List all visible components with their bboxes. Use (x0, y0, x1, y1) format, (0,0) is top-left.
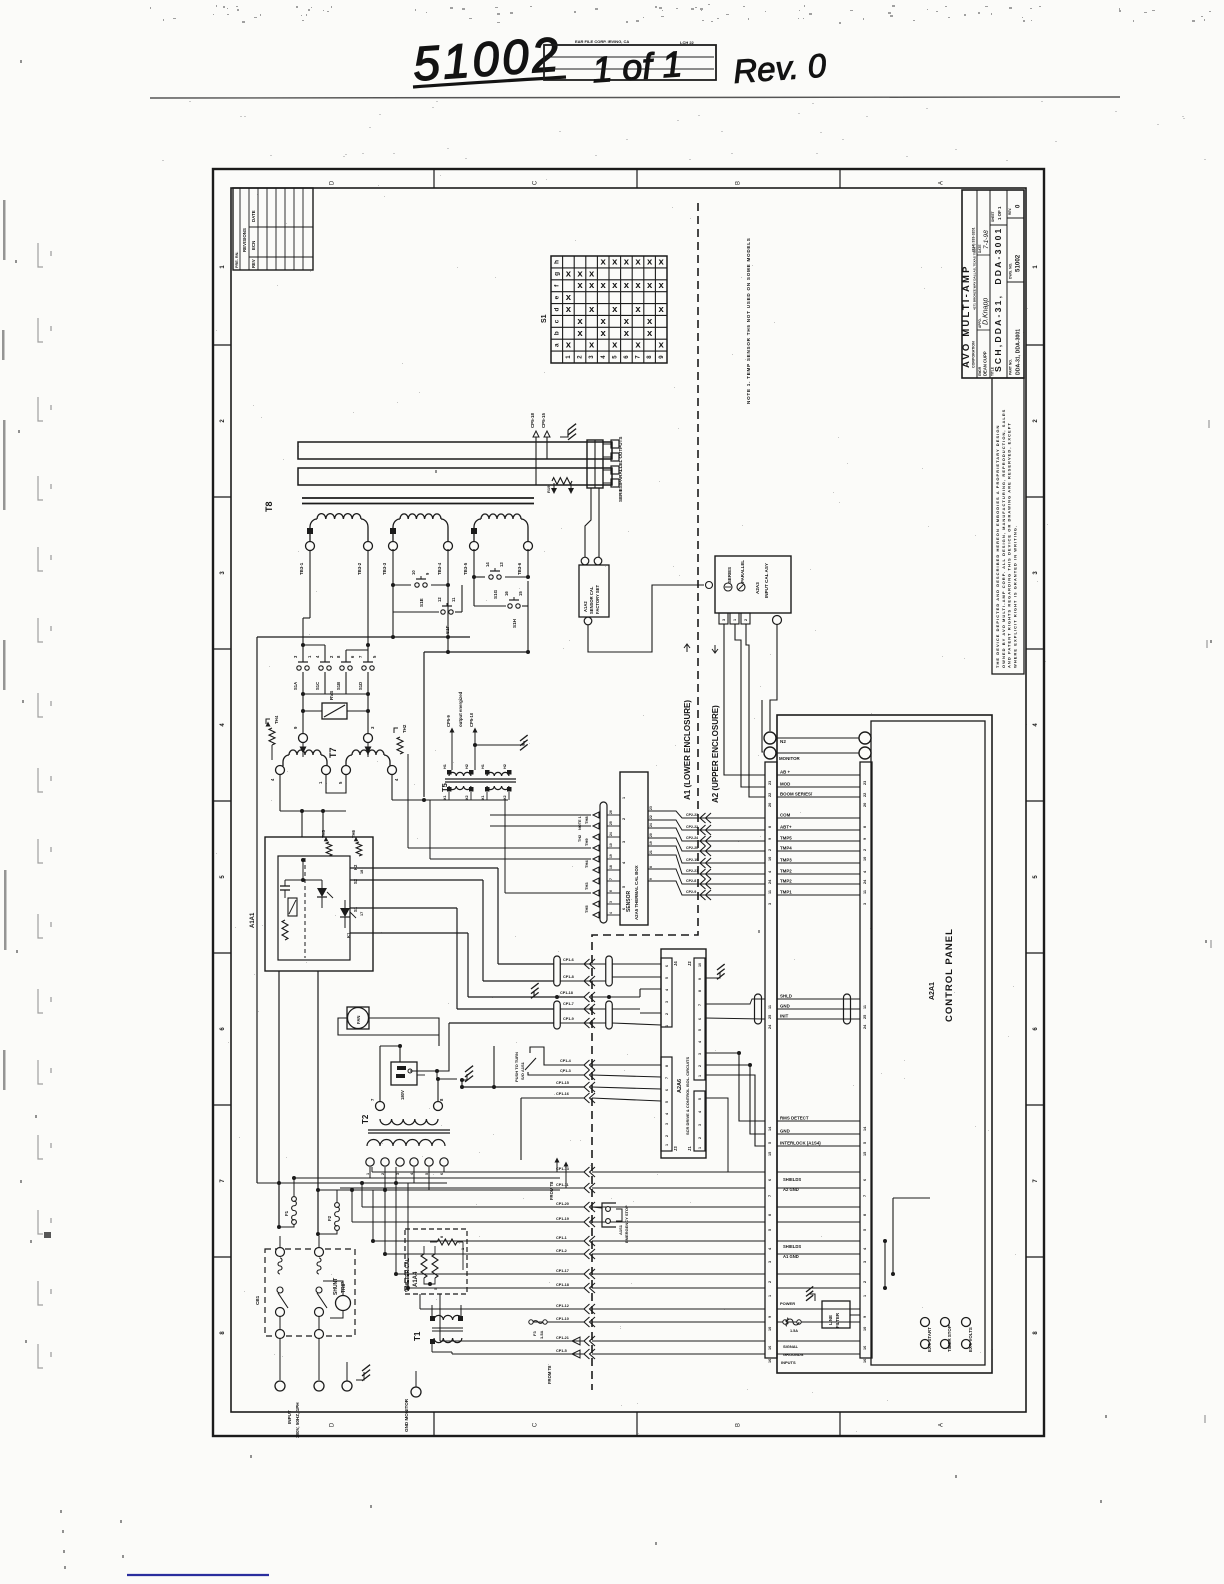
svg-text:3: 3 (396, 1173, 400, 1175)
svg-text:4: 4 (698, 1041, 702, 1043)
shunt trip coil (323, 1278, 351, 1318)
svg-text:x: x (647, 328, 653, 339)
gnd monitor terminal (404, 1371, 430, 1432)
svg-text:AB +: AB + (780, 770, 791, 775)
svg-text:16: 16 (768, 1346, 772, 1350)
svg-text:x: x (589, 280, 595, 291)
svg-text:11: 11 (863, 1005, 867, 1009)
svg-text:2: 2 (381, 1173, 385, 1175)
wire T5 secondary bus (392, 792, 509, 802)
svg-text:24: 24 (649, 823, 653, 827)
svg-text:A1A1: A1A1 (250, 912, 256, 928)
svg-text:APPD.: APPD. (978, 318, 982, 328)
svg-text:7: 7 (768, 1195, 772, 1197)
svg-text:10: 10 (609, 843, 613, 847)
svg-text:SERIES/PARALLEL OUTPUTS: SERIES/PARALLEL OUTPUTS (618, 437, 623, 502)
title block engineer / approval / date (978, 230, 990, 376)
svg-text:9: 9 (863, 838, 867, 840)
wires T2 secondary to bus (370, 1167, 444, 1192)
svg-text:B: B (736, 181, 742, 185)
scan margin artifacts (38, 243, 1212, 1423)
svg-text:2: 2 (665, 1135, 669, 1137)
svg-text:DEAN CUPP: DEAN CUPP (983, 351, 988, 376)
svg-text:7: 7 (863, 1195, 867, 1197)
svg-text:4: 4 (698, 1111, 702, 1113)
svg-text:S1D: S1D (358, 682, 363, 690)
svg-text:1: 1 (733, 619, 737, 621)
svg-text:5: 5 (768, 1229, 772, 1231)
fuse F3 (510, 1320, 547, 1339)
title block company name AVO MULTI-AMP (961, 227, 977, 368)
svg-text:INTERLOCK (A1S4): INTERLOCK (A1S4) (780, 1141, 821, 1146)
svg-text:X2: X2 (503, 795, 507, 800)
svg-text:14: 14 (485, 562, 490, 567)
svg-text:x: x (589, 304, 595, 315)
transformer T2 (361, 1046, 450, 1175)
resistor R19 (546, 478, 574, 494)
svg-text:INPUT CAL ASY: INPUT CAL ASY (764, 563, 769, 598)
svg-text:PART NO.: PART NO. (1009, 359, 1013, 375)
svg-text:REVISIONS: REVISIONS (242, 228, 247, 252)
svg-text:INPUT: INPUT (287, 1410, 292, 1424)
svg-text:A: A (939, 181, 945, 185)
switch S1B (340, 666, 344, 670)
svg-text:A2A1: A2A1 (929, 982, 936, 1000)
svg-text:A1A2: A1A2 (583, 601, 588, 612)
svg-text:CP2-21: CP2-21 (686, 869, 698, 873)
thyristor S2 (317, 880, 333, 908)
svg-text:4: 4 (609, 912, 613, 914)
transformer T8 winding group 3 (463, 514, 533, 575)
svg-text:CP5-9: CP5-9 (446, 714, 451, 727)
transformer T1 (413, 1305, 463, 1352)
svg-text:9: 9 (863, 1316, 867, 1318)
wire CP5-18 tap (530, 413, 539, 485)
svg-text:8: 8 (768, 1214, 772, 1216)
svg-text:x: x (659, 256, 665, 267)
svg-text:TB3-1: TB3-1 (299, 562, 304, 575)
connector J3 (661, 1057, 678, 1151)
output bus lines (302, 498, 534, 504)
svg-text:CP5-18: CP5-18 (530, 413, 535, 428)
svg-text:x: x (635, 304, 641, 315)
svg-text:SENSOR: SENSOR (626, 890, 632, 912)
wire TB3-1 drop (301, 551, 370, 662)
svg-text:CP1-16: CP1-16 (556, 1092, 569, 1096)
svg-text:A: A (939, 1423, 945, 1427)
svg-text:EXT. START: EXT. START (927, 1327, 932, 1352)
title block sheet cell (991, 206, 1002, 222)
switch S1A (297, 666, 301, 670)
svg-text:S2: S2 (353, 878, 358, 884)
svg-text:CP1-18: CP1-18 (556, 1283, 569, 1287)
svg-text:2: 2 (863, 1281, 867, 1283)
input terminals (275, 1362, 352, 1438)
svg-text:15: 15 (518, 591, 523, 596)
svg-text:J3: J3 (673, 1146, 678, 1151)
svg-text:F1: F1 (284, 1210, 289, 1216)
svg-text:RVS: RVS (329, 691, 334, 700)
svg-text:20: 20 (649, 833, 653, 837)
svg-text:J2: J2 (687, 961, 692, 966)
svg-text:NOTE 1. TEMP SENSOR TH5 NOT U: NOTE 1. TEMP SENSOR TH5 NOT USED ON SOME… (746, 237, 751, 404)
svg-text:EMERGENCY STOP: EMERGENCY STOP (624, 1205, 629, 1243)
svg-text:SHIELDS: SHIELDS (783, 1177, 801, 1182)
svg-text:FROM T8: FROM T8 (547, 1365, 552, 1384)
svg-text:INIT: INIT (780, 1014, 789, 1019)
svg-text:SHEET: SHEET (991, 211, 995, 222)
control panel A2A1 outer box (777, 715, 992, 1373)
svg-text:FILTER: FILTER (835, 1312, 840, 1328)
svg-text:CP1-8: CP1-8 (563, 975, 574, 979)
module A2A3 input cal asy (706, 556, 792, 625)
svg-text:13: 13 (499, 562, 504, 567)
wires fan loop (338, 1018, 439, 1046)
terminal MONITOR (764, 747, 871, 761)
svg-text:TB3-6: TB3-6 (517, 562, 522, 575)
wire CP1-9 (437, 1017, 661, 1071)
svg-text:22: 22 (649, 815, 653, 819)
svg-text:CB1: CB1 (255, 1295, 260, 1305)
switch S1C (319, 666, 323, 670)
svg-text:7-1-98: 7-1-98 (983, 230, 990, 249)
capacitor C1 in A1A1 (280, 880, 290, 898)
ferrite capsules on CP1 rows (554, 956, 613, 1029)
svg-text:5: 5 (768, 1142, 772, 1144)
svg-text:g: g (554, 272, 561, 276)
title block dwg no 51002 (1009, 254, 1022, 279)
wire T7 bottom bus (280, 809, 346, 837)
wire CP1-15 (462, 1081, 661, 1092)
svg-text:INPUTS: INPUTS (781, 1360, 796, 1365)
bus wire y652 (424, 637, 530, 797)
svg-text:EXT. VOLTS: EXT. VOLTS (968, 1327, 973, 1352)
svg-text:NOTE 1: NOTE 1 (578, 816, 582, 830)
svg-text:PARALLEL: PARALLEL (740, 560, 745, 583)
svg-text:THE DEVICE DEPICTED AND DESCRI: THE DEVICE DEPICTED AND DESCRIBED HEREON… (995, 425, 1000, 668)
svg-text:SERIES: SERIES (727, 567, 732, 583)
svg-text:CONTROL PANEL: CONTROL PANEL (944, 928, 955, 1022)
outer border frame (213, 169, 1044, 1436)
svg-text:x: x (612, 256, 618, 267)
meter cal module A1A4 (405, 1229, 467, 1294)
panel pin rows (768, 770, 867, 1157)
svg-text:1: 1 (622, 797, 626, 799)
svg-text:10: 10 (698, 963, 702, 967)
svg-text:x: x (635, 340, 641, 351)
wire S1 to CP1-7 (350, 908, 457, 1009)
svg-text:CP1-13: CP1-13 (556, 1167, 569, 1171)
svg-text:8: 8 (768, 826, 772, 828)
external terminals TIMER STOP (941, 1318, 953, 1353)
svg-text:16: 16 (504, 591, 509, 596)
svg-text:X2: X2 (465, 795, 469, 800)
wires sensors to A2A5 left (272, 745, 591, 893)
wire left feeders (257, 971, 560, 1234)
svg-text:H1: H1 (443, 764, 447, 769)
svg-text:TB3-4: TB3-4 (437, 562, 442, 575)
svg-text:T1: T1 (413, 1331, 422, 1341)
wire K1 to CP1-18 (350, 933, 584, 997)
svg-text:A1A4: A1A4 (413, 1271, 419, 1287)
svg-text:CP1-15: CP1-15 (556, 1081, 569, 1085)
svg-text:11: 11 (451, 597, 456, 602)
svg-text:FACTORY SET: FACTORY SET (595, 585, 600, 614)
header rule line (150, 97, 1120, 98)
svg-text:3: 3 (698, 1124, 702, 1126)
svg-text:x: x (566, 340, 572, 351)
svg-text:K2: K2 (353, 864, 358, 870)
svg-text:4271 BRONZE WAY DALLAS, TEXAS: 4271 BRONZE WAY DALLAS, TEXAS 75237 (973, 246, 977, 310)
transformer T8 winding group 1 (299, 514, 373, 575)
svg-text:2: 2 (698, 1065, 702, 1067)
svg-text:CP1-9: CP1-9 (563, 1017, 574, 1021)
module A1A1 box (250, 837, 373, 971)
switch S1G (489, 575, 493, 579)
svg-text:2: 2 (863, 849, 867, 851)
svg-text:15: 15 (863, 1152, 867, 1156)
svg-text:CP1-21: CP1-21 (556, 1336, 569, 1340)
svg-text:1.5A: 1.5A (790, 1329, 798, 1333)
label A2 upper enclosure (711, 645, 720, 803)
svg-text:16: 16 (863, 1346, 867, 1350)
svg-text:6: 6 (609, 890, 613, 892)
svg-text:DDA-31, DDA-3001: DDA-31, DDA-3001 (1016, 329, 1022, 375)
svg-text:x: x (635, 256, 641, 267)
control panel inner box (871, 721, 985, 1365)
svg-text:2: 2 (622, 818, 626, 820)
svg-text:8: 8 (863, 1214, 867, 1216)
transformer T5 (440, 764, 516, 800)
svg-text:15: 15 (768, 1152, 772, 1156)
svg-text:10: 10 (768, 1327, 772, 1331)
svg-text:3: 3 (768, 1261, 772, 1263)
svg-text:C: C (533, 180, 539, 185)
svg-text:8: 8 (440, 1236, 444, 1238)
svg-text:GND MONITOR: GND MONITOR (404, 1398, 409, 1432)
svg-text:S1: S1 (541, 314, 548, 323)
svg-text:1: 1 (863, 1295, 867, 1297)
svg-text:CP2-9: CP2-9 (686, 890, 696, 894)
svg-text:CP2-23: CP2-23 (686, 813, 698, 817)
from T8 arrows lower (547, 1337, 584, 1384)
sensor input triangles (578, 797, 626, 918)
svg-text:7: 7 (665, 1077, 669, 1079)
proprietary notice box (992, 378, 1024, 674)
svg-text:TMP3: TMP3 (780, 858, 792, 863)
svg-text:J1: J1 (687, 1146, 692, 1151)
svg-text:CP1-1: CP1-1 (556, 1236, 567, 1240)
zone ticks and designators (213, 169, 1044, 1436)
svg-text:REV: REV (251, 259, 256, 268)
svg-text:1 of 1: 1 of 1 (591, 43, 684, 90)
svg-text:8: 8 (649, 866, 653, 868)
svg-text:CP1-2: CP1-2 (556, 1249, 567, 1253)
svg-text:output energized: output energized (458, 691, 463, 727)
svg-text:ENGR: ENGR (978, 366, 982, 376)
fan motor (347, 1007, 369, 1029)
svg-text:TIMER STOP: TIMER STOP (947, 1325, 952, 1352)
svg-text:x: x (577, 268, 583, 279)
wire TB3-3 to S1E (391, 549, 450, 587)
svg-text:x: x (612, 340, 618, 351)
svg-text:2: 2 (665, 1013, 669, 1015)
svg-text:5: 5 (622, 886, 626, 888)
ground at J2 pin 9 (705, 964, 725, 979)
svg-text:CORPORATION: CORPORATION (972, 341, 976, 368)
svg-text:x: x (601, 280, 607, 291)
svg-text:TRIP: TRIP (341, 1281, 347, 1293)
svg-text:AVO MULTI-AMP: AVO MULTI-AMP (961, 264, 972, 368)
svg-text:DATE: DATE (978, 245, 982, 253)
svg-text:CP1-17: CP1-17 (556, 1269, 569, 1273)
svg-text:N2: N2 (780, 739, 786, 744)
ground near T2 (460, 1046, 496, 1089)
svg-text:6: 6 (698, 1018, 702, 1020)
svg-text:TH5: TH5 (584, 905, 589, 913)
wire risers to CP1 rows (340, 1167, 452, 1354)
svg-text:10: 10 (863, 857, 867, 861)
svg-text:10: 10 (863, 1327, 867, 1331)
svg-text:6: 6 (440, 1173, 444, 1175)
svg-text:CP2-24: CP2-24 (686, 836, 698, 840)
svg-text:6: 6 (863, 1179, 867, 1181)
wire CP5-10 (469, 712, 498, 770)
svg-text:x: x (624, 328, 630, 339)
varistor RVS (322, 691, 347, 719)
svg-text:x: x (601, 328, 607, 339)
svg-text:TH5: TH5 (321, 829, 326, 838)
thermal sensor TH5 (321, 829, 332, 856)
fuse F1 (277, 1178, 296, 1229)
switch S1D (362, 666, 366, 670)
svg-text:x: x (647, 280, 653, 291)
svg-text:22: 22 (768, 793, 772, 797)
svg-text:A1S1: A1S1 (618, 1224, 623, 1235)
svg-text:TH2: TH2 (402, 724, 407, 733)
svg-text:LINE: LINE (828, 1315, 833, 1325)
svg-text:5: 5 (665, 1101, 669, 1103)
svg-text:TH2: TH2 (578, 835, 582, 842)
svg-text:3: 3 (722, 619, 726, 621)
svg-text:POWER: POWER (780, 1301, 795, 1306)
svg-text:x: x (589, 268, 595, 279)
svg-text:x: x (647, 316, 653, 327)
svg-text:25: 25 (863, 1015, 867, 1019)
from T8 arrows upper (549, 1158, 569, 1201)
panel internal wires (872, 1198, 930, 1290)
svg-text:X1: X1 (481, 795, 485, 800)
svg-text:S/O A1S1: S/O A1S1 (520, 1061, 525, 1080)
svg-text:LCH 22: LCH 22 (680, 40, 695, 45)
svg-text:x: x (624, 316, 630, 327)
svg-text:x: x (601, 316, 607, 327)
svg-text:x: x (577, 328, 583, 339)
svg-text:2: 2 (744, 619, 748, 621)
svg-text:S1G: S1G (493, 589, 498, 599)
svg-text:10: 10 (768, 857, 772, 861)
svg-text:x: x (566, 292, 572, 303)
switch A1S1 push to turn (514, 1047, 661, 1082)
svg-text:MOD: MOD (780, 782, 790, 787)
connector J4 (661, 958, 678, 1027)
svg-text:PRE. RN.: PRE. RN. (235, 252, 239, 268)
relay K in A1A1 supply (380, 1044, 457, 1100)
svg-text:T2: T2 (361, 1114, 370, 1124)
svg-text:F2: F2 (327, 1215, 332, 1221)
svg-text:4: 4 (665, 989, 669, 991)
svg-text:2: 2 (698, 1137, 702, 1139)
svg-text:SCR DRIVE & CONTROL ISOL. CIRC: SCR DRIVE & CONTROL ISOL. CIRCUITS (685, 1057, 690, 1135)
svg-text:TB3-3: TB3-3 (382, 562, 387, 575)
svg-text:x: x (659, 304, 665, 315)
svg-text:380V, 50HZ, 1PH: 380V, 50HZ, 1PH (295, 1402, 300, 1438)
wire CP1-6 (560, 958, 661, 969)
title block (962, 190, 1024, 378)
svg-text:SIGNAL: SIGNAL (783, 1344, 799, 1349)
svg-text:5: 5 (425, 1173, 429, 1175)
svg-text:1: 1 (698, 1147, 702, 1149)
svg-text:x: x (624, 256, 630, 267)
wires CP1 rows to chevrons (340, 1167, 765, 1359)
varistor in A1A1 (288, 898, 297, 916)
svg-text:1.5A: 1.5A (539, 1330, 544, 1339)
svg-text:51002: 51002 (1015, 254, 1022, 272)
connector capsule at A2A5 (600, 802, 607, 923)
svg-text:TH6: TH6 (351, 829, 356, 838)
svg-text:1 OF 1: 1 OF 1 (997, 206, 1002, 220)
svg-text:7: 7 (698, 1004, 702, 1006)
wires A2A5 to control panel (648, 806, 765, 900)
svg-text:F3: F3 (532, 1331, 537, 1336)
wire CP1-18 (560, 989, 661, 1002)
svg-text:TH4: TH4 (584, 860, 589, 868)
svg-text:18: 18 (360, 870, 364, 874)
svg-text:3: 3 (698, 1053, 702, 1055)
svg-text:11: 11 (768, 890, 772, 894)
svg-text:x: x (659, 340, 665, 351)
ground at T5 (498, 735, 528, 750)
module A1A2 sensor cal (579, 488, 609, 625)
svg-text:TB3-2: TB3-2 (357, 562, 362, 575)
svg-text:CP1-12: CP1-12 (556, 1304, 569, 1308)
svg-text:OWNED BY AVO MULTI-AMP CORP. A: OWNED BY AVO MULTI-AMP CORP. ALL DESIGN,… (1001, 409, 1006, 668)
svg-text:9: 9 (698, 978, 702, 980)
wires J2 to panel (705, 999, 765, 1146)
svg-text:D: D (330, 1422, 336, 1427)
svg-text:2: 2 (768, 849, 772, 851)
svg-text:D.Knapp: D.Knapp (983, 298, 990, 325)
wire contacts to RVS row (301, 672, 370, 733)
thermal sensor TH6 (351, 829, 362, 856)
svg-text:X1: X1 (443, 795, 447, 800)
svg-text:CP2-19: CP2-19 (686, 858, 698, 862)
svg-text:CP1-11: CP1-11 (556, 1183, 569, 1187)
svg-text:WHERE EXPLICIT RIGHT IS GRANTE: WHERE EXPLICIT RIGHT IS GRANTED IN WRITI… (1012, 525, 1017, 668)
svg-text:S1B: S1B (336, 682, 341, 690)
svg-text:x: x (577, 316, 583, 327)
svg-text:10: 10 (411, 570, 416, 575)
svg-text:20: 20 (768, 803, 772, 807)
svg-text:S1C: S1C (315, 682, 320, 690)
svg-text:6: 6 (768, 1179, 772, 1181)
resistor in A1A1 (282, 920, 288, 940)
switch table S1 (541, 256, 667, 363)
switch S1E (415, 583, 419, 587)
svg-text:x: x (612, 280, 618, 291)
svg-text:Rev. 0: Rev. 0 (732, 46, 828, 89)
wire CP1-7 (457, 1002, 661, 1014)
